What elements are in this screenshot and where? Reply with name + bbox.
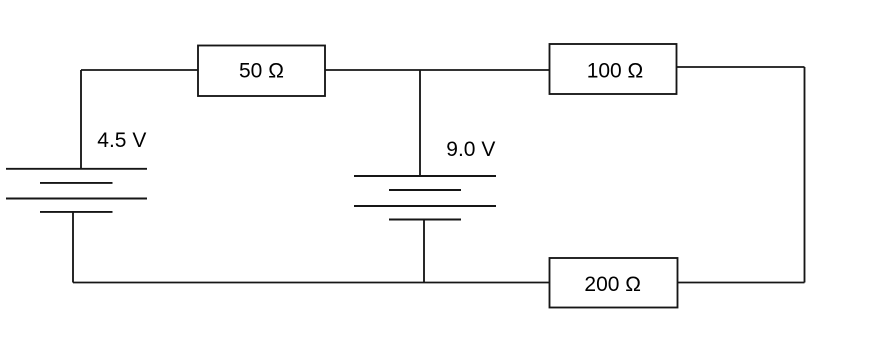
svg-text:9.0 V: 9.0 V xyxy=(446,138,495,161)
wire: left vertical from battery B1 bottom plate down to bottom wire xyxy=(72,212,74,283)
wire: bottom wire from battery B1 bottom to resistor R3 left, through node B xyxy=(73,282,550,284)
svg-text:100 Ω: 100 Ω xyxy=(587,59,644,82)
battery B1 plate: short bottom xyxy=(40,211,113,213)
battery B1 plate: short xyxy=(40,182,113,184)
wire: top wire from battery B1 top to resistor R1 left xyxy=(81,69,198,71)
battery B1 plate: long xyxy=(6,198,147,200)
resistor R1 box xyxy=(198,46,325,97)
battery B2 plate: long xyxy=(354,205,496,207)
battery B2 plate: short bottom xyxy=(389,219,461,221)
wire: right vertical from top wire down to bottom wire xyxy=(804,67,806,283)
battery B2 plate: short xyxy=(389,189,461,191)
wire: bottom wire from resistor R3 right to right vertical xyxy=(678,282,805,284)
svg-text:4.5 V: 4.5 V xyxy=(97,129,146,152)
battery B2 (9.0 V) plate: long top xyxy=(354,175,496,177)
resistor R3 box xyxy=(550,258,678,308)
svg-text:50 Ω: 50 Ω xyxy=(239,59,284,82)
wire: left vertical from top wire down to battery B1 xyxy=(80,70,82,169)
wire: middle vertical from battery B2 bottom plate down to node B xyxy=(423,220,425,283)
resistor R2 box xyxy=(550,44,677,94)
svg-text:200 Ω: 200 Ω xyxy=(584,273,641,296)
wire: top wire from R1 right through node A to resistor R2 left xyxy=(325,69,550,71)
wire: middle vertical from node A down to battery B2 top plate xyxy=(419,70,421,176)
wire: top wire from R2 right to right vertical xyxy=(677,66,805,68)
battery B1 (4.5 V) plate: long top xyxy=(6,168,147,170)
